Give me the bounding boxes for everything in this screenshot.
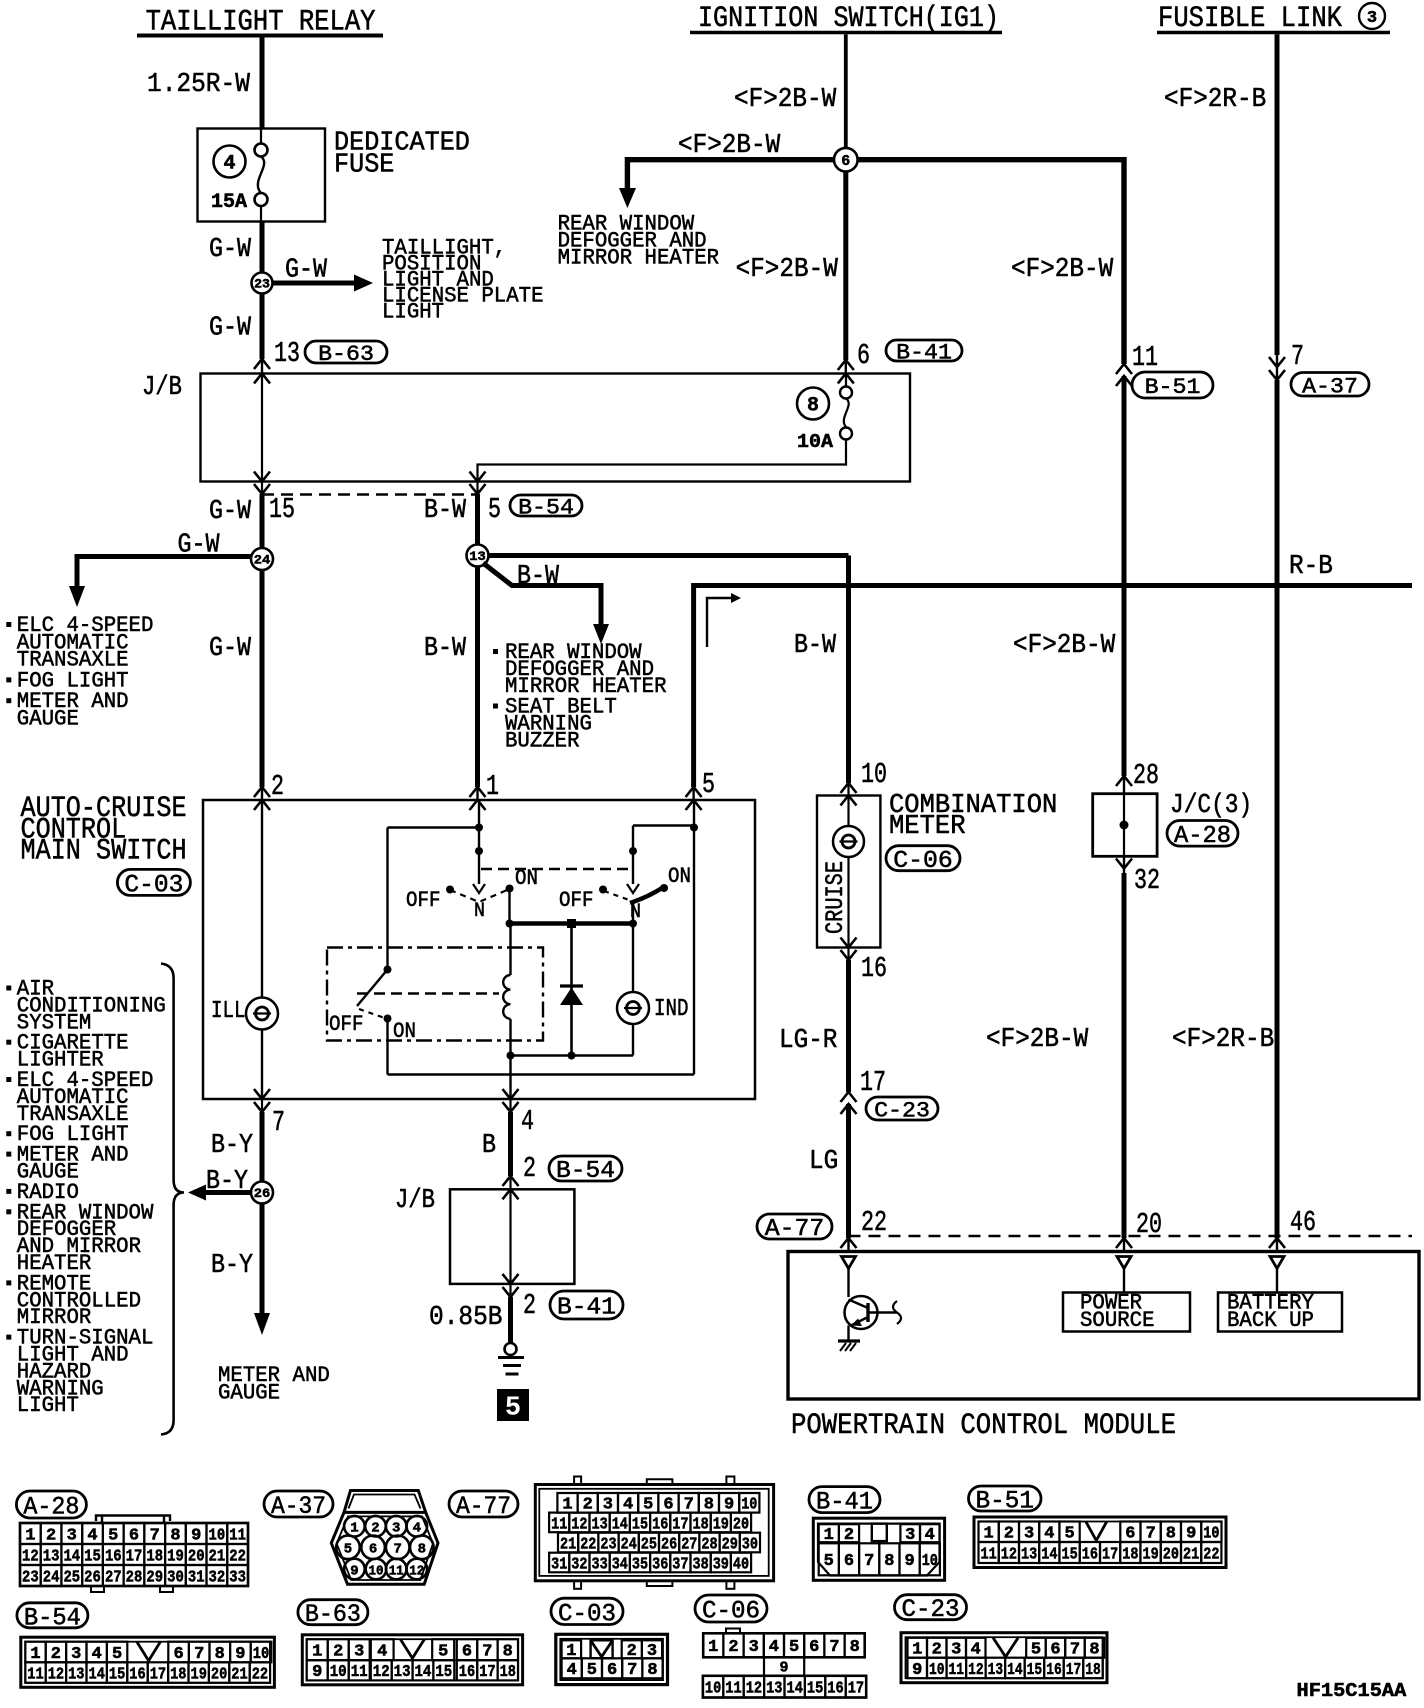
connector C-03 housing bbox=[556, 1634, 668, 1684]
wire switch 2 to IND bus bbox=[632, 902, 634, 924]
connector B-63 housing bbox=[302, 1635, 522, 1685]
svg-text:10: 10 bbox=[705, 1679, 721, 1698]
wire LG-R to C-23 bbox=[846, 960, 851, 1092]
wire B-W splice 13 arrow branch bbox=[483, 563, 609, 644]
svg-text:17: 17 bbox=[479, 1662, 495, 1681]
svg-text:OFF: OFF bbox=[329, 1012, 364, 1037]
svg-text:4: 4 bbox=[413, 1521, 421, 1537]
svg-text:5: 5 bbox=[587, 1660, 597, 1679]
splice 24 bbox=[251, 548, 273, 570]
svg-text:<F>2R-B: <F>2R-B bbox=[1164, 85, 1266, 115]
svg-text:19: 19 bbox=[1143, 1544, 1159, 1563]
switch 1 (main) moving contact bbox=[473, 884, 485, 893]
svg-text:5: 5 bbox=[438, 1642, 448, 1661]
switch 1 ON contact bbox=[506, 866, 539, 893]
svg-text:6: 6 bbox=[369, 1542, 377, 1558]
svg-text:33: 33 bbox=[592, 1554, 608, 1573]
svg-text:15A: 15A bbox=[211, 191, 247, 214]
pin 17 label bbox=[860, 1066, 886, 1099]
svg-text:METER: METER bbox=[889, 812, 966, 842]
connector B-51 pins 6-10 bbox=[1120, 1522, 1221, 1543]
svg-text:17: 17 bbox=[1102, 1544, 1118, 1563]
svg-text:18: 18 bbox=[1085, 1660, 1101, 1679]
svg-text:8: 8 bbox=[704, 1495, 714, 1514]
svg-text:6: 6 bbox=[841, 153, 850, 170]
wire 2R-B fusible link down bbox=[1275, 34, 1280, 355]
switch 2 ON contact bbox=[660, 864, 691, 892]
connector A-77 pins 21-30 bbox=[558, 1533, 760, 1554]
wire B-Y pin 7 to splice 26 bbox=[260, 1112, 265, 1182]
connector B-54 pins 1-5 bbox=[25, 1642, 127, 1663]
svg-text:BUZZER: BUZZER bbox=[505, 729, 580, 754]
svg-text:11: 11 bbox=[229, 1525, 246, 1544]
wire relay ON contact down bbox=[386, 1019, 388, 1075]
svg-text:13: 13 bbox=[68, 1665, 84, 1684]
connector C-03 pinout tag bbox=[551, 1598, 623, 1628]
svg-text:19: 19 bbox=[167, 1546, 184, 1565]
connector B-63 pinout tag bbox=[298, 1600, 368, 1630]
relay lever dashed to ON bbox=[359, 1009, 386, 1019]
svg-text:8: 8 bbox=[1089, 1640, 1099, 1659]
svg-text:3: 3 bbox=[71, 1644, 81, 1663]
svg-text:J/B: J/B bbox=[395, 1186, 435, 1216]
connector B-41 housing bbox=[813, 1518, 944, 1580]
svg-text:3: 3 bbox=[354, 1642, 364, 1661]
svg-text:10: 10 bbox=[330, 1662, 347, 1681]
connector C-23 tag bbox=[866, 1097, 938, 1124]
connector B-63 tag bbox=[305, 341, 387, 367]
svg-text:15: 15 bbox=[632, 1514, 648, 1533]
relay ON contact bbox=[384, 1015, 417, 1045]
connector B-51 pinout tag bbox=[969, 1486, 1042, 1516]
node COMBINATION METER label bbox=[889, 791, 1057, 842]
svg-text:4: 4 bbox=[623, 1495, 633, 1514]
connector A-77 housing bbox=[535, 1477, 773, 1589]
svg-text:B-Y: B-Y bbox=[211, 1131, 253, 1161]
connector C-23 pins 5-8 bbox=[1026, 1638, 1104, 1659]
auto-cruise main switch box bbox=[203, 800, 755, 1099]
label ILL bbox=[211, 998, 246, 1025]
wire B pin 4 down bbox=[508, 1112, 513, 1176]
connector B-54 housing bbox=[21, 1637, 275, 1687]
svg-text:9: 9 bbox=[724, 1495, 734, 1514]
wire label B-W at splice 13 bbox=[517, 562, 560, 592]
pin 4 label bbox=[521, 1105, 534, 1138]
switch 2 moving contact bbox=[627, 884, 639, 893]
fuse number circle 4 bbox=[214, 146, 246, 178]
svg-text:GAUGE: GAUGE bbox=[17, 707, 79, 732]
label IND bbox=[654, 996, 689, 1023]
diagram code HF15C15AA bbox=[1297, 1680, 1407, 1702]
svg-text:1: 1 bbox=[486, 770, 499, 803]
wire B-W pin 5 to splice 13 bbox=[475, 494, 480, 545]
svg-text:8: 8 bbox=[418, 1542, 426, 1558]
svg-text:13: 13 bbox=[988, 1660, 1004, 1679]
in-line connector C-23 chevrons bbox=[841, 1092, 857, 1114]
connector A-37 tag bbox=[1291, 373, 1369, 400]
connector B-51 pins 11-22 bbox=[979, 1542, 1222, 1563]
svg-text:J/B: J/B bbox=[142, 373, 182, 403]
svg-text:24: 24 bbox=[43, 1567, 60, 1586]
transistor Q1 bbox=[845, 1269, 902, 1330]
svg-text:G-W: G-W bbox=[209, 314, 252, 344]
svg-text:CRUISE: CRUISE bbox=[821, 861, 850, 934]
svg-text:28: 28 bbox=[126, 1567, 143, 1586]
connector A-77 pins 31-40 bbox=[549, 1553, 751, 1574]
svg-text:15: 15 bbox=[435, 1662, 452, 1681]
connector A-37 pinout tag bbox=[264, 1491, 333, 1521]
svg-text:11: 11 bbox=[981, 1544, 997, 1563]
node POWERTRAIN CONTROL MODULE label bbox=[791, 1409, 1176, 1443]
switch 2 lever (ON position) bbox=[630, 888, 662, 903]
connector C-23 pins 1-4 bbox=[908, 1638, 986, 1659]
svg-text:2: 2 bbox=[583, 1495, 593, 1514]
node FUSIBLE LINK 3 (source title) bbox=[1157, 2, 1390, 36]
svg-text:J/C(3): J/C(3) bbox=[1170, 791, 1252, 821]
svg-text:12: 12 bbox=[571, 1514, 587, 1533]
svg-text:17: 17 bbox=[1066, 1660, 1082, 1679]
svg-text:6: 6 bbox=[844, 1551, 854, 1570]
svg-text:14: 14 bbox=[787, 1679, 803, 1698]
svg-text:C-03: C-03 bbox=[124, 870, 183, 899]
connector A-28 tag bbox=[1167, 821, 1238, 850]
fuse F8 element bbox=[840, 374, 852, 440]
connector C-23 housing bbox=[901, 1633, 1107, 1683]
connector B-63 pins 9-11 bbox=[307, 1660, 370, 1681]
connector B-63 pins 6-8 bbox=[457, 1639, 518, 1660]
svg-text:28: 28 bbox=[1133, 759, 1159, 792]
pin 2 label (B-54) bbox=[523, 1152, 536, 1185]
svg-text:46: 46 bbox=[1290, 1206, 1316, 1239]
connector B-51 housing bbox=[974, 1517, 1226, 1568]
pin 1 label bbox=[486, 770, 499, 803]
node ELC/FOG/METER list bbox=[6, 613, 153, 732]
svg-text:20: 20 bbox=[211, 1665, 227, 1684]
wire inside J/B pin13 to pin15 bbox=[261, 374, 263, 482]
svg-text:A-28: A-28 bbox=[1174, 823, 1231, 850]
pin 6 label bbox=[857, 339, 870, 372]
svg-text:9: 9 bbox=[312, 1662, 322, 1681]
svg-text:5: 5 bbox=[643, 1495, 653, 1514]
connector B-63 pins 1-3 bbox=[307, 1639, 370, 1660]
svg-text:30: 30 bbox=[167, 1567, 184, 1586]
svg-text:2: 2 bbox=[333, 1642, 343, 1661]
connector C-06 tag bbox=[886, 846, 960, 875]
svg-text:B-41: B-41 bbox=[816, 1488, 873, 1517]
connector C-23 pins 9-18 bbox=[908, 1658, 1103, 1679]
connector C-06 housing row1 bbox=[703, 1629, 865, 1658]
svg-text:29: 29 bbox=[722, 1534, 738, 1553]
node AIR CONDITIONING ... load list bbox=[6, 977, 166, 1419]
wire inside combination meter bbox=[847, 857, 849, 948]
connector A-77 pins 11-20 bbox=[549, 1513, 751, 1534]
pin 2 label bbox=[271, 770, 284, 803]
svg-text:<F>2B-W: <F>2B-W bbox=[736, 255, 839, 285]
svg-text:15: 15 bbox=[807, 1679, 823, 1698]
svg-text:1: 1 bbox=[912, 1640, 922, 1659]
svg-text:11: 11 bbox=[725, 1679, 741, 1698]
wire label (F)2B-W below junction bbox=[736, 255, 839, 285]
svg-text:13: 13 bbox=[274, 337, 300, 370]
svg-text:10: 10 bbox=[209, 1525, 226, 1544]
svg-text:15: 15 bbox=[1027, 1660, 1043, 1679]
node J/C(3) label bbox=[1170, 791, 1252, 821]
svg-text:10: 10 bbox=[922, 1551, 938, 1570]
svg-text:OFF: OFF bbox=[559, 888, 594, 913]
switch 2 lever dashed to OFF bbox=[604, 891, 629, 900]
switch 1 lever dashed bbox=[450, 889, 510, 902]
pin 10 label bbox=[861, 758, 887, 791]
svg-text:2: 2 bbox=[523, 1152, 536, 1185]
wire label B bbox=[482, 1131, 496, 1161]
svg-text:1: 1 bbox=[25, 1525, 35, 1544]
connector A-28 pins 1-11 bbox=[20, 1523, 248, 1544]
svg-text:31: 31 bbox=[551, 1554, 567, 1573]
svg-text:22: 22 bbox=[580, 1534, 596, 1553]
svg-text:24: 24 bbox=[621, 1534, 637, 1553]
wire fuse 8 to pin 5 inside J/B bbox=[478, 440, 847, 482]
in-line connector A-37 chevrons bbox=[1269, 355, 1285, 380]
lamp IND bbox=[617, 924, 649, 1056]
connector B-54 tag lower bbox=[549, 1156, 622, 1185]
pin 5 label bbox=[488, 493, 501, 526]
wire relay output to pin 5 vertical bbox=[388, 1073, 695, 1075]
wire B-W splice 13 right to combination meter bbox=[489, 556, 849, 796]
svg-text:2: 2 bbox=[844, 1525, 854, 1544]
svg-text:1: 1 bbox=[30, 1644, 40, 1663]
pin 32 label bbox=[1134, 864, 1160, 897]
wire label (F)2B-W left bbox=[678, 131, 781, 161]
pin 2 exit chevrons (B-41) bbox=[503, 1274, 519, 1297]
pin 15 label bbox=[269, 493, 295, 526]
connector B-51 key notch bbox=[1086, 1522, 1107, 1541]
svg-text:15: 15 bbox=[84, 1546, 101, 1565]
svg-text:16: 16 bbox=[861, 952, 887, 985]
value label 1.25R-W bbox=[147, 70, 251, 100]
svg-text:11: 11 bbox=[351, 1662, 368, 1681]
svg-text:25: 25 bbox=[641, 1534, 657, 1553]
svg-text:7: 7 bbox=[194, 1644, 204, 1663]
wire to pin 4 exit bbox=[509, 1056, 511, 1100]
node METER AND GAUGE bbox=[218, 1363, 330, 1406]
svg-text:1.25R-W: 1.25R-W bbox=[147, 70, 251, 100]
svg-text:1: 1 bbox=[562, 1495, 572, 1514]
pin 13 label bbox=[274, 337, 300, 370]
wire R-B down to auto-cruise pin 5 bbox=[691, 583, 696, 800]
svg-text:B-63: B-63 bbox=[318, 341, 374, 367]
svg-text:4: 4 bbox=[971, 1640, 981, 1659]
connector B-54 pins 11-22 bbox=[25, 1662, 270, 1683]
svg-text:LG: LG bbox=[809, 1147, 838, 1177]
node REAR WINDOW DEFOGGER / SEAT BELT list bbox=[493, 640, 667, 754]
connector B-54 key notch bbox=[137, 1642, 161, 1661]
svg-text:10: 10 bbox=[253, 1644, 270, 1663]
svg-text:5: 5 bbox=[112, 1644, 122, 1663]
wire B-W into combination meter bbox=[841, 783, 857, 806]
connector B-41 pins 1-2 bbox=[819, 1524, 859, 1544]
svg-text:20: 20 bbox=[1163, 1544, 1179, 1563]
svg-text:3: 3 bbox=[749, 1637, 759, 1656]
connector A-77 pins 1-10 bbox=[557, 1493, 759, 1514]
connector C-06 pin 9 cell bbox=[764, 1657, 804, 1676]
svg-text:20: 20 bbox=[188, 1546, 205, 1565]
svg-text:22: 22 bbox=[229, 1546, 246, 1565]
wire G-W fuse to splice 23 bbox=[260, 222, 265, 273]
svg-text:16: 16 bbox=[129, 1665, 145, 1684]
svg-text:A-77: A-77 bbox=[456, 1492, 511, 1521]
svg-text:C-06: C-06 bbox=[893, 848, 953, 875]
svg-text:15: 15 bbox=[1062, 1544, 1078, 1563]
svg-text:20: 20 bbox=[733, 1514, 749, 1533]
svg-text:5: 5 bbox=[505, 1394, 521, 1424]
connector B-63 pins 16-18 bbox=[457, 1660, 518, 1681]
svg-text:9: 9 bbox=[779, 1660, 788, 1677]
svg-text:A-28: A-28 bbox=[23, 1493, 79, 1522]
dedicated fuse box bbox=[198, 129, 326, 222]
svg-text:3: 3 bbox=[1024, 1524, 1034, 1543]
node REAR WINDOW DEFOGGER AND MIRROR HEATER (top) bbox=[558, 212, 720, 271]
connector C-06 housing row2 bbox=[703, 1676, 866, 1698]
wire pin5 feed to switch 2 bbox=[629, 824, 698, 885]
connector A-37 housing bbox=[331, 1491, 438, 1585]
connector A-77 tag bbox=[757, 1214, 832, 1243]
connector C-06 pins 10-17 bbox=[703, 1676, 866, 1698]
svg-text:2: 2 bbox=[932, 1640, 942, 1659]
svg-text:13: 13 bbox=[43, 1546, 60, 1565]
node TAILLIGHT RELAY (source title) bbox=[137, 6, 383, 40]
wire coil/diode/IND common bbox=[507, 1052, 634, 1060]
pin 7 exit chevrons bbox=[254, 1089, 270, 1112]
svg-text:A-37: A-37 bbox=[1302, 373, 1358, 399]
pin 2 label (B-41) bbox=[523, 1289, 536, 1322]
svg-text:12: 12 bbox=[22, 1546, 39, 1565]
svg-text:26: 26 bbox=[661, 1534, 677, 1553]
svg-text:17: 17 bbox=[860, 1066, 886, 1099]
wire 2B-W junction 6 right branch bbox=[858, 157, 1125, 364]
wire G-W splice 24 to auto-cruise pin 2 bbox=[260, 570, 265, 800]
svg-text:4: 4 bbox=[769, 1637, 779, 1656]
connector B-54 pinout tag bbox=[17, 1603, 88, 1633]
wire ignition switch to junction 6 bbox=[844, 34, 848, 148]
direction arrow at R-B corner bbox=[707, 593, 741, 647]
svg-text:5: 5 bbox=[488, 493, 501, 526]
connector B-63 pin 5 bbox=[432, 1639, 454, 1660]
wire pin1 internal junction bbox=[475, 800, 483, 884]
value label 10A bbox=[797, 431, 834, 453]
svg-text:LG-R: LG-R bbox=[779, 1026, 837, 1056]
brace bracket for load list bbox=[161, 964, 184, 1435]
label J/B bbox=[142, 373, 182, 403]
svg-text:C-23: C-23 bbox=[902, 1595, 960, 1624]
pin 13 connector chevrons bbox=[254, 359, 270, 384]
connector B-63 pins 12-15 bbox=[371, 1660, 455, 1681]
svg-text:6: 6 bbox=[174, 1644, 184, 1663]
svg-text:19: 19 bbox=[191, 1665, 207, 1684]
wire label B-W pin5 bbox=[424, 496, 467, 526]
svg-text:11: 11 bbox=[27, 1665, 43, 1684]
svg-text:35: 35 bbox=[632, 1554, 648, 1573]
svg-text:16: 16 bbox=[105, 1546, 122, 1565]
svg-text:39: 39 bbox=[713, 1554, 729, 1573]
splice 23 bbox=[252, 273, 273, 294]
pin 15 connector chevrons bbox=[254, 472, 270, 495]
pin 22 entry chevron bbox=[841, 1238, 857, 1252]
connector A-28 housing bbox=[20, 1516, 248, 1593]
svg-text:7: 7 bbox=[482, 1642, 492, 1661]
POWER SOURCE box bbox=[1063, 1269, 1190, 1334]
svg-text:11: 11 bbox=[551, 1514, 567, 1533]
svg-text:18: 18 bbox=[146, 1546, 163, 1565]
junction connector J/C(3) box bbox=[1093, 794, 1157, 857]
svg-text:<F>2B-W: <F>2B-W bbox=[1013, 631, 1116, 661]
svg-text:2: 2 bbox=[523, 1289, 536, 1322]
wire ILL lamp to pin 7 bbox=[261, 1030, 263, 1100]
svg-text:C-23: C-23 bbox=[874, 1098, 930, 1124]
connector B-41 tag lower bbox=[550, 1291, 623, 1322]
svg-text:6: 6 bbox=[663, 1495, 673, 1514]
wire B-W splice 13 down to auto-cruise pin 1 bbox=[475, 567, 480, 801]
svg-text:5: 5 bbox=[824, 1551, 834, 1570]
svg-text:G-W: G-W bbox=[209, 235, 252, 265]
svg-text:6: 6 bbox=[809, 1637, 819, 1656]
svg-text:9: 9 bbox=[905, 1551, 915, 1570]
svg-text:2: 2 bbox=[271, 770, 284, 803]
svg-text:B-Y: B-Y bbox=[211, 1251, 253, 1281]
svg-text:B-41: B-41 bbox=[896, 340, 952, 366]
svg-text:36: 36 bbox=[652, 1554, 668, 1573]
svg-text:3: 3 bbox=[392, 1521, 400, 1537]
svg-text:26: 26 bbox=[254, 1186, 271, 1201]
svg-text:6: 6 bbox=[607, 1660, 617, 1679]
wire label G-W pin15 bbox=[209, 497, 252, 527]
svg-text:22: 22 bbox=[252, 1665, 268, 1684]
wire 2B-W B-51 to J/C(3) bbox=[1122, 376, 1127, 776]
svg-text:10: 10 bbox=[369, 1563, 384, 1579]
svg-text:27: 27 bbox=[105, 1567, 122, 1586]
svg-text:4: 4 bbox=[92, 1644, 102, 1663]
svg-text:5: 5 bbox=[1031, 1640, 1041, 1659]
svg-text:B-54: B-54 bbox=[556, 1158, 615, 1185]
connector B-51 tag bbox=[1132, 372, 1213, 400]
connector C-06 pinout tag bbox=[695, 1595, 767, 1626]
node TAILLIGHT POSITION LIGHT AND LICENSE PLATE LIGHT bbox=[382, 236, 544, 325]
svg-text:R-B: R-B bbox=[1289, 552, 1333, 582]
svg-text:<F>2B-W: <F>2B-W bbox=[986, 1025, 1089, 1055]
switch 1 N label bbox=[474, 900, 485, 923]
svg-text:7: 7 bbox=[684, 1495, 694, 1514]
svg-text:A-77: A-77 bbox=[765, 1216, 825, 1243]
pin 1 entry chevrons bbox=[470, 787, 486, 810]
svg-text:4: 4 bbox=[925, 1525, 935, 1544]
wire R-B horizontal bbox=[694, 583, 1412, 588]
svg-text:33: 33 bbox=[229, 1567, 246, 1586]
svg-text:1: 1 bbox=[824, 1525, 834, 1544]
svg-text:7: 7 bbox=[864, 1551, 874, 1570]
svg-text:7: 7 bbox=[272, 1106, 285, 1139]
label CRUISE vertical bbox=[821, 861, 850, 934]
svg-text:8: 8 bbox=[1166, 1524, 1176, 1543]
svg-text:27: 27 bbox=[681, 1534, 697, 1553]
node IGNITION SWITCH(IG1) (source title) bbox=[690, 2, 1002, 36]
svg-text:8: 8 bbox=[170, 1525, 180, 1544]
wire G-W pin 15 to splice 24 bbox=[260, 494, 265, 548]
lamp CRUISE bbox=[833, 796, 864, 858]
svg-text:25: 25 bbox=[63, 1567, 80, 1586]
mechanical dashed link coil to armature bbox=[357, 992, 499, 994]
pin 16 exit chevrons bbox=[841, 938, 857, 961]
PCM pin triangle 22 bbox=[842, 1257, 856, 1269]
svg-text:8: 8 bbox=[647, 1660, 657, 1679]
